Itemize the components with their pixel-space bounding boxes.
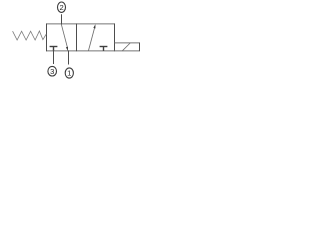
solenoid coil Y1 (box with diagonal): [115, 43, 140, 52]
right edge: [114, 24, 116, 52]
left cell blocked port 3 (T symbol): [50, 47, 58, 51]
port 2 stub wire: [61, 14, 63, 24]
svg-text:2: 2: [59, 3, 63, 12]
right cell flow path 3->2 (diagonal with arrow): [88, 27, 94, 51]
svg-text:3: 3: [50, 67, 54, 76]
bottom edge: [46, 50, 115, 52]
top edge: [46, 23, 115, 25]
port 1 label (circled 1): [65, 68, 73, 78]
arrowhead at port 2 end: [93, 24, 95, 28]
3/2-way solenoid valve with spring return, schematic: [0, 0, 160, 90]
port 1 stub wire: [68, 50, 70, 64]
port 3 stub wire: [53, 50, 55, 64]
port 3 label (circled 3): [48, 66, 57, 76]
arrowhead at port 1 end: [66, 47, 68, 51]
left cell flow path 2->1 (diagonal with arrow): [61, 24, 67, 48]
return spring on left: [13, 31, 47, 40]
right cell blocked port 1 (T symbol): [100, 47, 108, 51]
valve body V1 (two-position box): [46, 24, 115, 52]
solenoid diagonal: [122, 43, 130, 51]
left edge: [46, 24, 48, 52]
port 2 label (circled 2): [58, 2, 66, 12]
svg-text:1: 1: [67, 69, 71, 78]
divider between positions: [76, 24, 78, 52]
